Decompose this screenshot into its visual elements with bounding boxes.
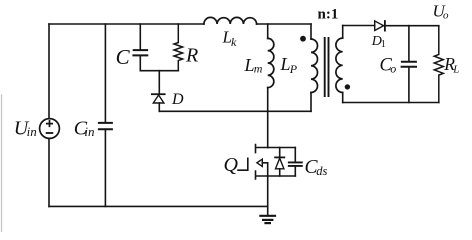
wire snubber bottom — [159, 110, 311, 112]
wire bottom rail — [49, 205, 268, 207]
inductor Lm — [267, 24, 269, 38]
transistor Q body — [256, 145, 268, 179]
svg-text:D: D — [171, 91, 184, 108]
wire snubber connector — [140, 70, 178, 72]
body diode of Q — [279, 148, 281, 177]
svg-text:in: in — [27, 124, 37, 139]
transformer secondary — [342, 26, 344, 39]
capacitor Cds — [294, 148, 296, 177]
source U_in — [40, 119, 60, 139]
scan artifact left edge — [1, 95, 3, 232]
transformer primary LP — [310, 24, 312, 39]
wire source down — [267, 176, 269, 206]
wire secondary bottom — [343, 102, 439, 104]
svg-text:L: L — [452, 64, 459, 76]
svg-text:m: m — [254, 61, 263, 75]
capacitor C — [139, 24, 141, 71]
wire top rail primary — [49, 23, 311, 25]
transistor Q gate lead — [238, 158, 248, 170]
capacitor Co — [408, 26, 410, 103]
svg-text:1: 1 — [381, 39, 386, 50]
resistor RL — [434, 26, 443, 103]
svg-text:C: C — [116, 45, 131, 69]
diode D — [158, 71, 160, 95]
svg-text:Q: Q — [224, 154, 239, 176]
node dot secondary — [345, 84, 350, 89]
capacitor Cin — [104, 24, 106, 206]
svg-text:ds: ds — [316, 164, 327, 178]
node dot primary — [300, 36, 306, 42]
svg-text:R: R — [185, 45, 198, 67]
resistor R — [174, 24, 183, 71]
wire drain — [268, 147, 296, 149]
diode D1 — [375, 21, 384, 31]
svg-text:P: P — [289, 62, 298, 76]
svg-text:k: k — [231, 35, 237, 49]
svg-text:o: o — [390, 61, 396, 75]
wire secondary top — [343, 25, 375, 27]
wire left vertical — [48, 24, 50, 206]
wire source rail — [268, 175, 296, 177]
transformer core — [325, 38, 329, 96]
inductor Lk — [204, 17, 257, 24]
ground — [267, 206, 269, 215]
svg-text:in: in — [84, 124, 94, 139]
svg-text:n:1: n:1 — [318, 6, 339, 22]
svg-text:o: o — [443, 10, 449, 22]
